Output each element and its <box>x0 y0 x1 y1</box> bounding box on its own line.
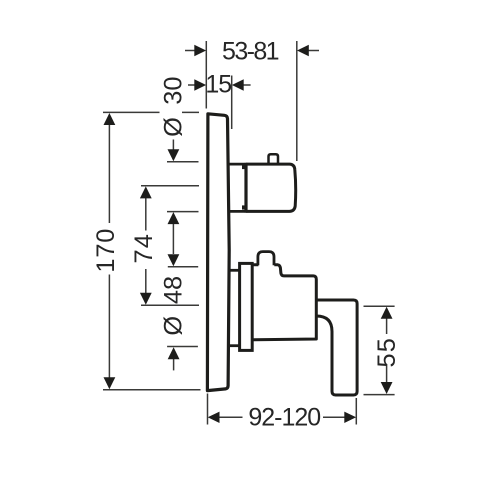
53-81 right leader line <box>308 50 319 52</box>
Ø48 top extension line <box>168 266 198 268</box>
53-81 left arrowhead <box>194 45 206 56</box>
170 bottom extension line (plate bottom) <box>103 389 201 391</box>
170 top extension line (plate top), gap for Ø30 text <box>103 111 199 113</box>
upper knob centerline extension (74 top) <box>141 185 199 187</box>
lower control stub (dome) <box>258 252 274 266</box>
upper knob top stub <box>269 154 279 164</box>
lower valve centerline extension (74 bottom) <box>141 304 199 306</box>
svg-text:55: 55 <box>373 337 401 368</box>
15 left leader line <box>188 84 195 86</box>
53-81 left extension line <box>205 41 207 109</box>
15 right arrowhead <box>232 79 244 90</box>
lever handle <box>316 300 357 395</box>
svg-text:Ø: Ø <box>159 316 187 336</box>
Ø30 top arrowhead (points down to knob top) <box>168 149 180 161</box>
53-81 right arrowhead <box>297 45 309 56</box>
15 left arrowhead <box>194 79 206 90</box>
upper knob left edge <box>244 163 247 213</box>
92-120 right extension line <box>355 398 357 425</box>
Ø48 bottom arrowhead (points up) <box>168 347 180 359</box>
170 bottom arrowhead <box>104 377 116 389</box>
92-120 dimension line right segment <box>323 416 345 418</box>
svg-text:74: 74 <box>130 233 158 264</box>
Ø30 bottom arrowhead (points up to knob bottom) <box>168 212 180 224</box>
Ø48 top arrowhead (points down) <box>168 254 180 266</box>
upper knob clip notch bottom <box>242 205 246 209</box>
upper knob body (thermostat handle) <box>246 164 296 211</box>
wall plate (escutcheon, side view) <box>207 114 229 391</box>
svg-text:48: 48 <box>159 276 187 304</box>
74 bottom arrowhead <box>140 293 152 305</box>
svg-text:15: 15 <box>205 71 231 99</box>
upper knob neck <box>229 164 247 211</box>
92-120 left extension line <box>207 394 209 425</box>
15 right extension line <box>231 76 233 130</box>
55 dimension line upper segment <box>386 318 388 335</box>
53-81 left leader line <box>185 50 195 52</box>
knob top extension line <box>167 161 199 163</box>
lower neck <box>229 270 240 345</box>
74 dimension line upper segment <box>145 198 147 231</box>
92-120 dimension line left segment <box>219 416 243 418</box>
dimension graphics <box>103 41 395 425</box>
Ø48 bottom extension line <box>167 346 198 348</box>
stem between knob-bottom arrow and Ø48-top arrow <box>172 224 174 254</box>
92-120 left arrowhead <box>208 412 220 423</box>
55 top extension line <box>364 305 395 307</box>
svg-text:170: 170 <box>92 228 120 273</box>
lower flange disc (edge view) <box>240 263 253 350</box>
92-120 right arrowhead <box>344 412 356 423</box>
lower valve body <box>252 265 316 340</box>
knob bottom extension line <box>167 211 199 213</box>
55 top arrowhead <box>381 307 393 319</box>
svg-text:Ø: Ø <box>159 117 187 137</box>
55 dimension line lower segment <box>386 364 388 382</box>
170 top arrowhead <box>104 113 116 125</box>
Ø48 bottom arrow stem <box>173 359 175 370</box>
55 bottom arrowhead <box>381 382 393 394</box>
53-81 right extension line <box>296 41 298 161</box>
170 dimension line upper segment <box>108 125 110 224</box>
svg-text:30: 30 <box>159 76 187 104</box>
Ø30 stem above top arrow <box>172 140 174 151</box>
svg-text:53-81: 53-81 <box>222 38 279 66</box>
upper knob clip notch top <box>242 165 246 169</box>
55 bottom extension line <box>364 394 395 396</box>
74 top arrowhead <box>140 186 152 198</box>
74 dimension line lower segment <box>145 269 147 294</box>
170 dimension line lower segment <box>108 275 110 379</box>
15 right leader line <box>243 84 251 86</box>
svg-text:92-120: 92-120 <box>248 404 320 432</box>
